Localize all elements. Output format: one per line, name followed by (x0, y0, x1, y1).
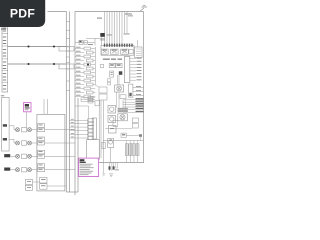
svg-text:PDF: PDF (10, 7, 35, 21)
